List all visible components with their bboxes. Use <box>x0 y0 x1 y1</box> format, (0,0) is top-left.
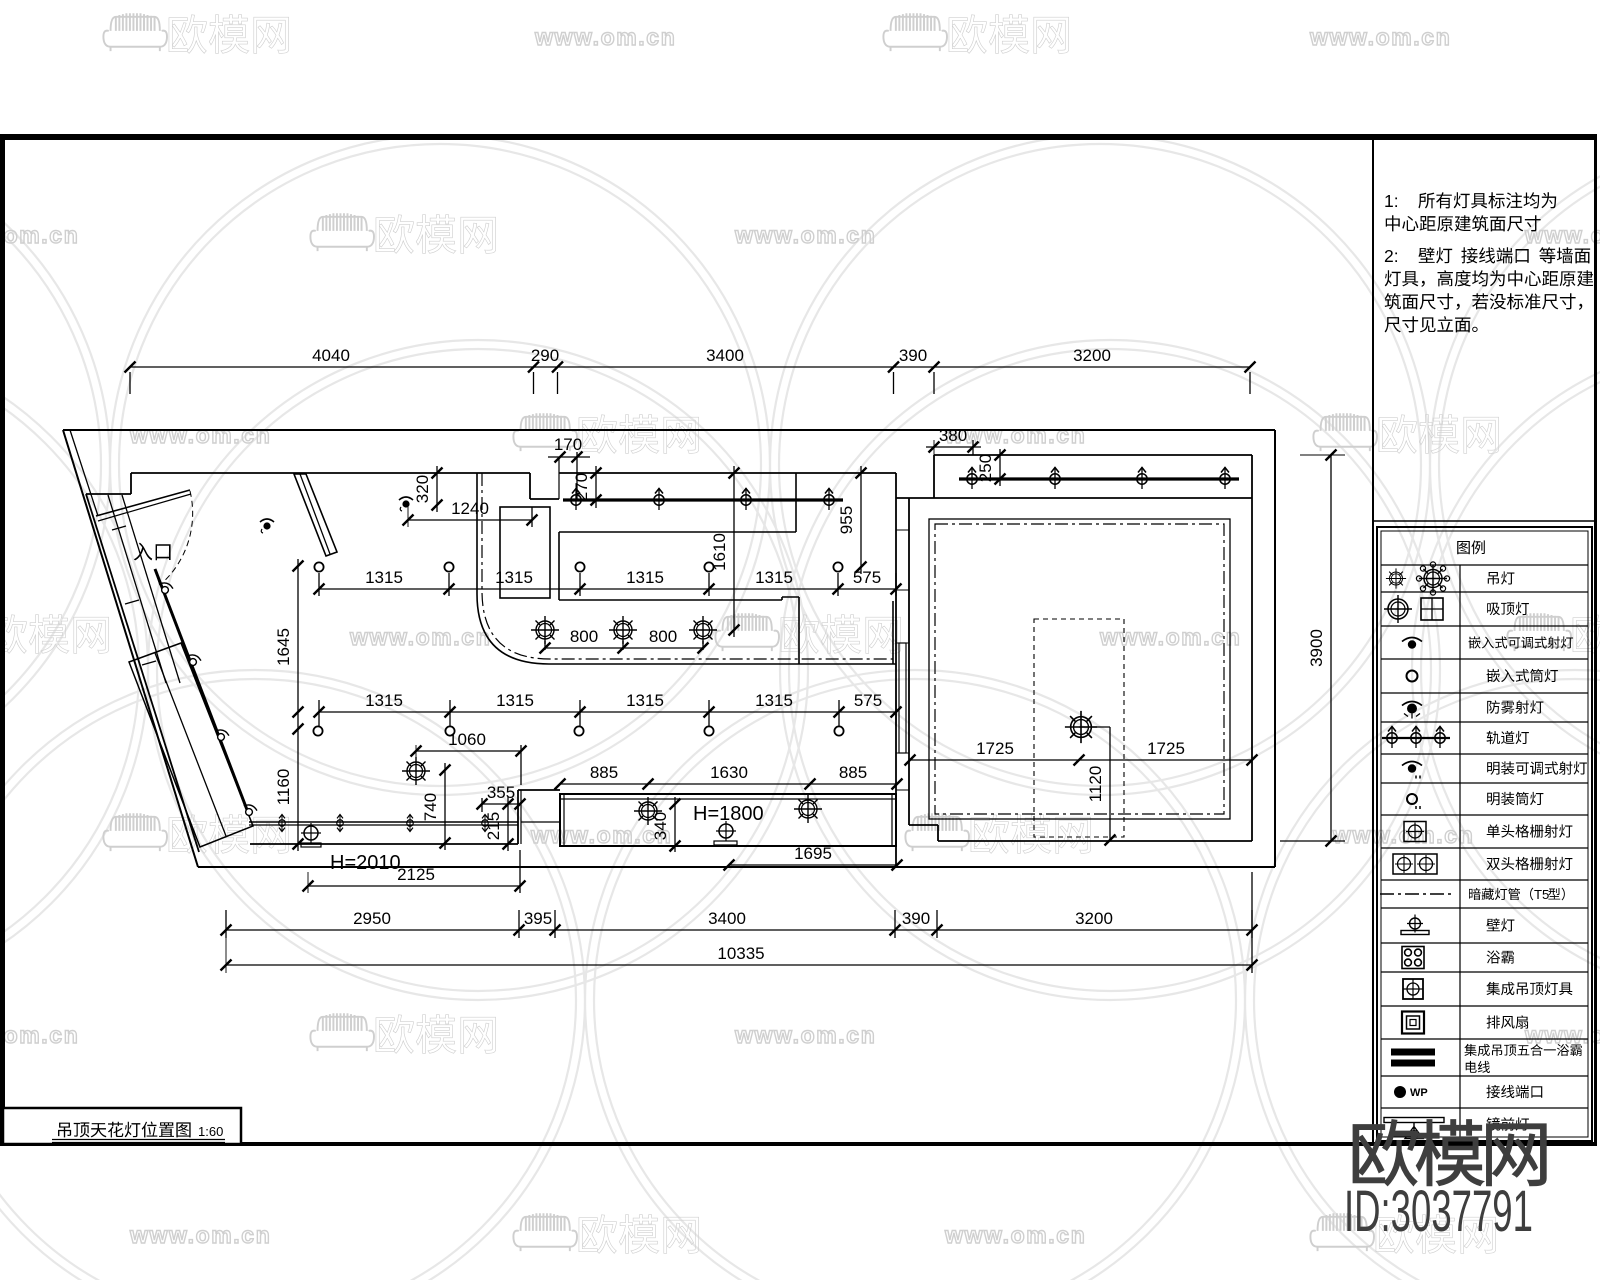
column box <box>500 507 550 598</box>
legend table <box>1377 527 1592 1141</box>
bedroom dash-dot rect <box>935 524 1224 814</box>
svg-text:2950: 2950 <box>353 909 391 928</box>
svg-text:1315: 1315 <box>755 691 793 710</box>
svg-text:1:60: 1:60 <box>198 1124 223 1139</box>
svg-text:T5: T5 <box>1534 887 1549 902</box>
drawing frame <box>0 134 1597 1146</box>
dim 3900 <box>1330 455 1332 841</box>
dim 1240 <box>408 519 532 521</box>
svg-text:www.om.cn: www.om.cn <box>1332 822 1474 848</box>
svg-text:4040: 4040 <box>312 346 350 365</box>
svg-text:575: 575 <box>853 568 881 587</box>
notes text <box>1384 191 1556 211</box>
dim 320 <box>436 466 438 512</box>
notes panel divider <box>1372 140 1374 1142</box>
svg-text:1315: 1315 <box>755 568 793 587</box>
pillar <box>517 790 519 844</box>
svg-text:1315: 1315 <box>495 568 533 587</box>
svg-text:www.om.cn: www.om.cn <box>1099 624 1241 650</box>
dim 250 <box>999 449 1001 486</box>
dim 1645/1160 <box>297 559 299 851</box>
dim 800 <box>545 647 703 649</box>
svg-text:1725: 1725 <box>1147 739 1185 758</box>
svg-text:1630: 1630 <box>710 763 748 782</box>
svg-text:1695: 1695 <box>794 844 832 863</box>
entrance door leaf <box>96 490 190 516</box>
bulkhead <box>559 531 796 533</box>
shelf left <box>249 821 518 823</box>
title box <box>3 1108 241 1144</box>
legend symbols <box>1386 562 1450 595</box>
dim 340 <box>674 797 676 852</box>
svg-text:390: 390 <box>899 346 927 365</box>
sliding door panel <box>899 643 906 753</box>
svg-text:800: 800 <box>649 627 677 646</box>
svg-text:250: 250 <box>976 454 995 482</box>
svg-text:955: 955 <box>837 506 856 534</box>
bedroom walls <box>895 473 897 867</box>
light 1060 <box>402 757 430 785</box>
bedroom dashed rect <box>1034 619 1124 837</box>
dim bottom row2 <box>226 929 1252 931</box>
svg-text:H=1800: H=1800 <box>693 803 764 825</box>
dim 270 <box>595 466 597 508</box>
dim row 1315 upper <box>319 588 896 590</box>
site watermark dark <box>1353 1120 1546 1186</box>
svg-text:www.om.cn: www.om.cn <box>734 222 876 248</box>
svg-text:355: 355 <box>487 783 515 802</box>
svg-text:1:: 1: <box>1384 191 1399 211</box>
bedroom inner thin rect <box>929 519 1230 819</box>
dim 740 <box>444 763 446 850</box>
svg-text:2:: 2: <box>1384 246 1399 266</box>
svg-text:290: 290 <box>531 346 559 365</box>
dim 885/1630/885 <box>560 783 897 785</box>
track light bedroom <box>959 477 1239 480</box>
svg-text:215: 215 <box>484 812 503 840</box>
dim 1120 <box>1109 727 1111 840</box>
svg-text:320: 320 <box>413 475 432 503</box>
svg-text:1315: 1315 <box>626 691 664 710</box>
dim 1725 <box>910 759 1252 761</box>
svg-text:www.om.cn: www.om.cn <box>129 1222 271 1248</box>
svg-text:1315: 1315 <box>365 691 403 710</box>
track light shop <box>563 498 843 501</box>
dim 170 <box>548 456 590 458</box>
dim row 1315 lower <box>319 711 896 713</box>
svg-text:1610: 1610 <box>710 533 729 571</box>
adjustable spotlights <box>260 519 274 533</box>
svg-text:www.om.cn: www.om.cn <box>0 1022 79 1048</box>
glass spotlights <box>157 581 174 596</box>
svg-text:1240: 1240 <box>451 499 489 518</box>
downlights lower row <box>313 726 322 735</box>
inner walls shop <box>86 494 199 852</box>
svg-text:10335: 10335 <box>717 944 764 963</box>
dim bottom total <box>226 964 1252 966</box>
svg-text:3400: 3400 <box>708 909 746 928</box>
dim 355 <box>482 803 520 805</box>
svg-text:www.om.cn: www.om.cn <box>1524 1022 1600 1048</box>
bedroom wall joints <box>896 529 909 531</box>
downlights upper row <box>314 562 323 571</box>
dim 1610 <box>733 466 735 637</box>
dim 380 <box>926 446 981 448</box>
dim 955 <box>860 466 862 574</box>
cabinet pendants <box>634 797 662 825</box>
svg-text:885: 885 <box>839 763 867 782</box>
svg-text:170: 170 <box>554 435 582 454</box>
entrance label <box>134 543 171 561</box>
diagonal screen wall <box>294 474 337 556</box>
svg-text:885: 885 <box>590 763 618 782</box>
svg-text:2125: 2125 <box>397 865 435 884</box>
svg-text:1315: 1315 <box>365 568 403 587</box>
bottom cabinet <box>560 794 896 846</box>
svg-text:340: 340 <box>651 812 670 840</box>
storefront glass <box>155 569 249 815</box>
cove edge solid <box>477 473 896 664</box>
svg-text:3400: 3400 <box>706 346 744 365</box>
svg-text:www.om.cn: www.om.cn <box>349 624 491 650</box>
watermark logos <box>103 13 167 51</box>
bedroom ceiling light <box>1065 711 1097 743</box>
svg-text:1315: 1315 <box>496 691 534 710</box>
svg-text:ID:3037791: ID:3037791 <box>1344 1180 1533 1245</box>
svg-text:www.om.cn: www.om.cn <box>534 24 676 50</box>
shelf spotlights <box>279 815 285 832</box>
svg-text:1120: 1120 <box>1086 766 1105 803</box>
door swing arc <box>160 491 193 585</box>
svg-text:H=2010: H=2010 <box>330 852 401 874</box>
pendant lights 800 row <box>531 616 559 644</box>
svg-text:1645: 1645 <box>274 628 293 666</box>
svg-text:3200: 3200 <box>1073 346 1111 365</box>
svg-text:390: 390 <box>902 909 930 928</box>
hinge stem <box>155 569 160 585</box>
dim 1060 <box>416 750 521 752</box>
svg-text:www.om.cn: www.om.cn <box>0 222 79 248</box>
svg-text:www.om.cn: www.om.cn <box>1309 24 1451 50</box>
svg-text:575: 575 <box>854 691 882 710</box>
svg-text:1315: 1315 <box>626 568 664 587</box>
dim top row <box>130 366 1250 368</box>
svg-text:800: 800 <box>570 627 598 646</box>
pendant stems <box>544 641 546 650</box>
svg-text:1060: 1060 <box>448 730 486 749</box>
lower cabinet quad <box>129 643 253 847</box>
cove edge dash-dot <box>482 473 893 659</box>
svg-text:380: 380 <box>939 426 967 445</box>
dim bottom 2125 <box>308 885 520 887</box>
entrance band <box>108 495 166 683</box>
svg-text:3200: 3200 <box>1075 909 1113 928</box>
wall lights <box>301 823 321 843</box>
dim 215 <box>507 797 509 851</box>
svg-text:www.om.cn: www.om.cn <box>129 422 271 448</box>
shop bottom inner wall <box>250 843 518 845</box>
svg-text:www.om.cn: www.om.cn <box>734 1022 876 1048</box>
dim 1695 <box>729 864 897 866</box>
svg-text:WP: WP <box>1410 1087 1428 1099</box>
svg-text:395: 395 <box>524 909 552 928</box>
svg-text:www.om.cn: www.om.cn <box>944 1222 1086 1248</box>
svg-text:740: 740 <box>421 793 440 821</box>
outer walls <box>63 429 1275 431</box>
svg-text:1725: 1725 <box>976 739 1014 758</box>
svg-text:270: 270 <box>572 473 591 501</box>
svg-text:3900: 3900 <box>1307 629 1326 667</box>
svg-text:1160: 1160 <box>274 769 293 806</box>
